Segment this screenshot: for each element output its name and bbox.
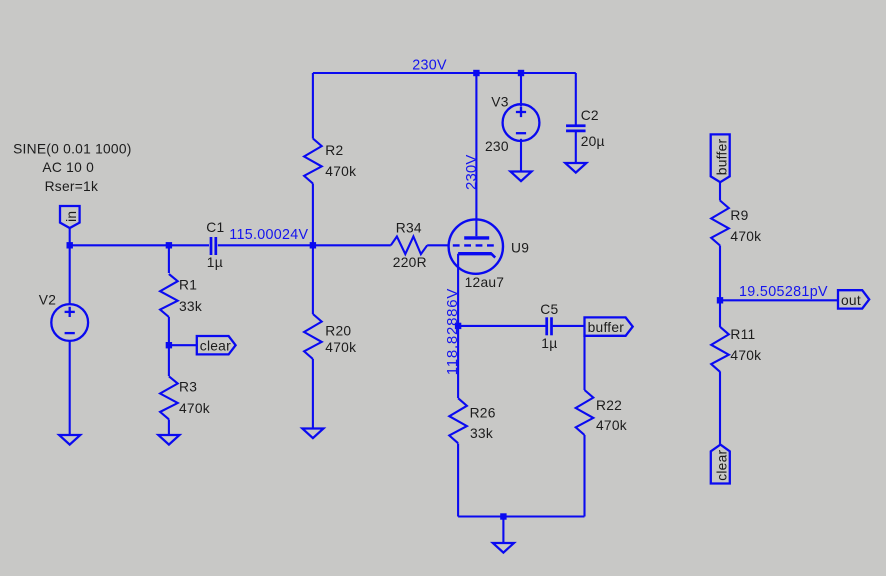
- wire node to R3: [168, 345, 170, 376]
- resistor R20: [304, 314, 322, 359]
- junction bottom ground: [500, 513, 506, 519]
- svg-text:115.00024V: 115.00024V: [229, 227, 308, 243]
- svg-text:V2: V2: [39, 293, 56, 308]
- junction node-115V: [310, 242, 316, 248]
- flag clear bottom: [711, 445, 730, 484]
- junction clear node: [166, 342, 172, 348]
- capacitor C2: [566, 126, 586, 131]
- junction R1 top: [166, 242, 172, 248]
- wire V3 to ground: [520, 139, 522, 172]
- svg-text:out: out: [841, 293, 861, 308]
- svg-text:clear: clear: [200, 338, 231, 353]
- wire node to R1: [168, 245, 170, 273]
- ground under R20: [302, 429, 323, 439]
- svg-text:19.505281pV: 19.505281pV: [739, 284, 828, 300]
- wire rail to tube anode: [475, 73, 477, 236]
- wire in-flag to node: [69, 228, 71, 245]
- wire bottom rail: [458, 515, 584, 517]
- resistor R2: [304, 139, 322, 184]
- flag in: [60, 206, 80, 228]
- svg-text:C5: C5: [540, 302, 558, 317]
- wire R11 to clear flag: [719, 372, 721, 445]
- wire node to C1: [70, 244, 209, 246]
- resistor R22: [576, 390, 594, 435]
- svg-text:470k: 470k: [325, 340, 356, 355]
- wire to bottom ground: [502, 517, 504, 544]
- flag out: [838, 290, 869, 308]
- svg-text:clear: clear: [714, 449, 729, 480]
- svg-text:C2: C2: [581, 108, 599, 123]
- wire node to R11: [719, 300, 721, 327]
- junction out node: [717, 297, 723, 303]
- svg-text:33k: 33k: [179, 299, 202, 314]
- svg-text:C1: C1: [206, 220, 224, 235]
- ground under C2: [565, 163, 586, 173]
- wire R2 to node: [312, 184, 314, 246]
- svg-text:in: in: [64, 211, 79, 222]
- svg-text:R34: R34: [396, 220, 422, 235]
- resistor R3: [160, 376, 178, 419]
- svg-text:470k: 470k: [179, 401, 210, 416]
- svg-text:33k: 33k: [470, 426, 493, 441]
- wire buffer flag to R22: [583, 336, 585, 390]
- svg-text:R11: R11: [730, 327, 755, 342]
- svg-text:470k: 470k: [325, 164, 356, 179]
- capacitor C1: [211, 237, 216, 255]
- wire cathode to node: [457, 254, 459, 326]
- wire node to R20: [312, 245, 314, 314]
- ground under V2: [59, 435, 80, 445]
- wire R3 to ground: [168, 420, 170, 436]
- flag buffer top: [711, 134, 730, 182]
- ground under R3: [158, 435, 179, 445]
- svg-text:SINE(0 0.01 1000): SINE(0 0.01 1000): [13, 141, 132, 156]
- junction in node: [67, 242, 73, 248]
- svg-text:R1: R1: [179, 278, 197, 293]
- wire C2 to ground: [575, 132, 577, 163]
- wire rail to R2: [312, 73, 314, 139]
- svg-text:AC 10 0: AC 10 0: [42, 160, 94, 175]
- wire C1 to R34: [218, 244, 391, 246]
- wire V2 to ground: [69, 341, 71, 435]
- wire R26 to bottom rail: [457, 444, 459, 517]
- svg-text:470k: 470k: [730, 348, 761, 363]
- ground under V3: [510, 172, 531, 182]
- svg-text:buffer: buffer: [714, 139, 729, 176]
- svg-text:R2: R2: [325, 143, 343, 158]
- voltage source V2: [51, 304, 88, 341]
- resistor R11: [711, 327, 729, 372]
- svg-text:R22: R22: [596, 398, 622, 413]
- wire R9 to out node: [719, 246, 721, 301]
- capacitor C5: [547, 317, 552, 335]
- resistor R26: [449, 398, 467, 443]
- resistor R1: [160, 274, 178, 317]
- wire 230V rail: [313, 72, 576, 74]
- svg-text:R26: R26: [470, 406, 496, 421]
- svg-text:230: 230: [485, 139, 509, 154]
- svg-text:20µ: 20µ: [581, 134, 605, 149]
- svg-text:230V: 230V: [463, 155, 480, 190]
- wire R34 to tube grid: [427, 244, 449, 246]
- svg-text:220R: 220R: [393, 255, 427, 270]
- resistor R9: [711, 201, 729, 246]
- wire rail to C2: [575, 73, 577, 125]
- wire node to V2: [69, 245, 71, 304]
- wire node to R26: [457, 326, 459, 398]
- svg-text:U9: U9: [511, 241, 529, 256]
- wire R22 to bottom rail: [583, 435, 585, 517]
- wire C5 to buffer flag: [553, 325, 585, 327]
- wire to clear flag: [169, 344, 197, 346]
- triode U9: [449, 219, 503, 273]
- svg-text:buffer: buffer: [588, 320, 625, 335]
- svg-text:230V: 230V: [412, 58, 447, 74]
- svg-text:R3: R3: [179, 379, 197, 394]
- flag clear: [197, 336, 236, 354]
- svg-text:470k: 470k: [730, 229, 761, 244]
- junction cathode node: [455, 323, 461, 329]
- svg-text:Rser=1k: Rser=1k: [45, 179, 99, 194]
- wire rail to V3: [520, 73, 522, 107]
- svg-text:R20: R20: [325, 323, 351, 338]
- resistor R34: [391, 237, 427, 255]
- wire R1 to clear node: [168, 317, 170, 345]
- flag buffer: [585, 317, 633, 335]
- svg-text:1µ: 1µ: [541, 336, 557, 351]
- svg-text:V3: V3: [491, 95, 508, 110]
- wire node to C5: [458, 325, 545, 327]
- voltage source V3: [503, 104, 540, 141]
- wire out node to flag: [720, 299, 838, 301]
- svg-text:470k: 470k: [596, 418, 627, 433]
- junction rail-anode: [473, 70, 479, 76]
- svg-text:12au7: 12au7: [465, 275, 505, 290]
- wire R20 to ground: [312, 359, 314, 429]
- junction rail-V3: [518, 70, 524, 76]
- svg-text:1µ: 1µ: [207, 255, 223, 270]
- wire buffer flag to R9: [719, 182, 721, 200]
- svg-text:R9: R9: [730, 208, 748, 223]
- ground bottom: [493, 543, 514, 553]
